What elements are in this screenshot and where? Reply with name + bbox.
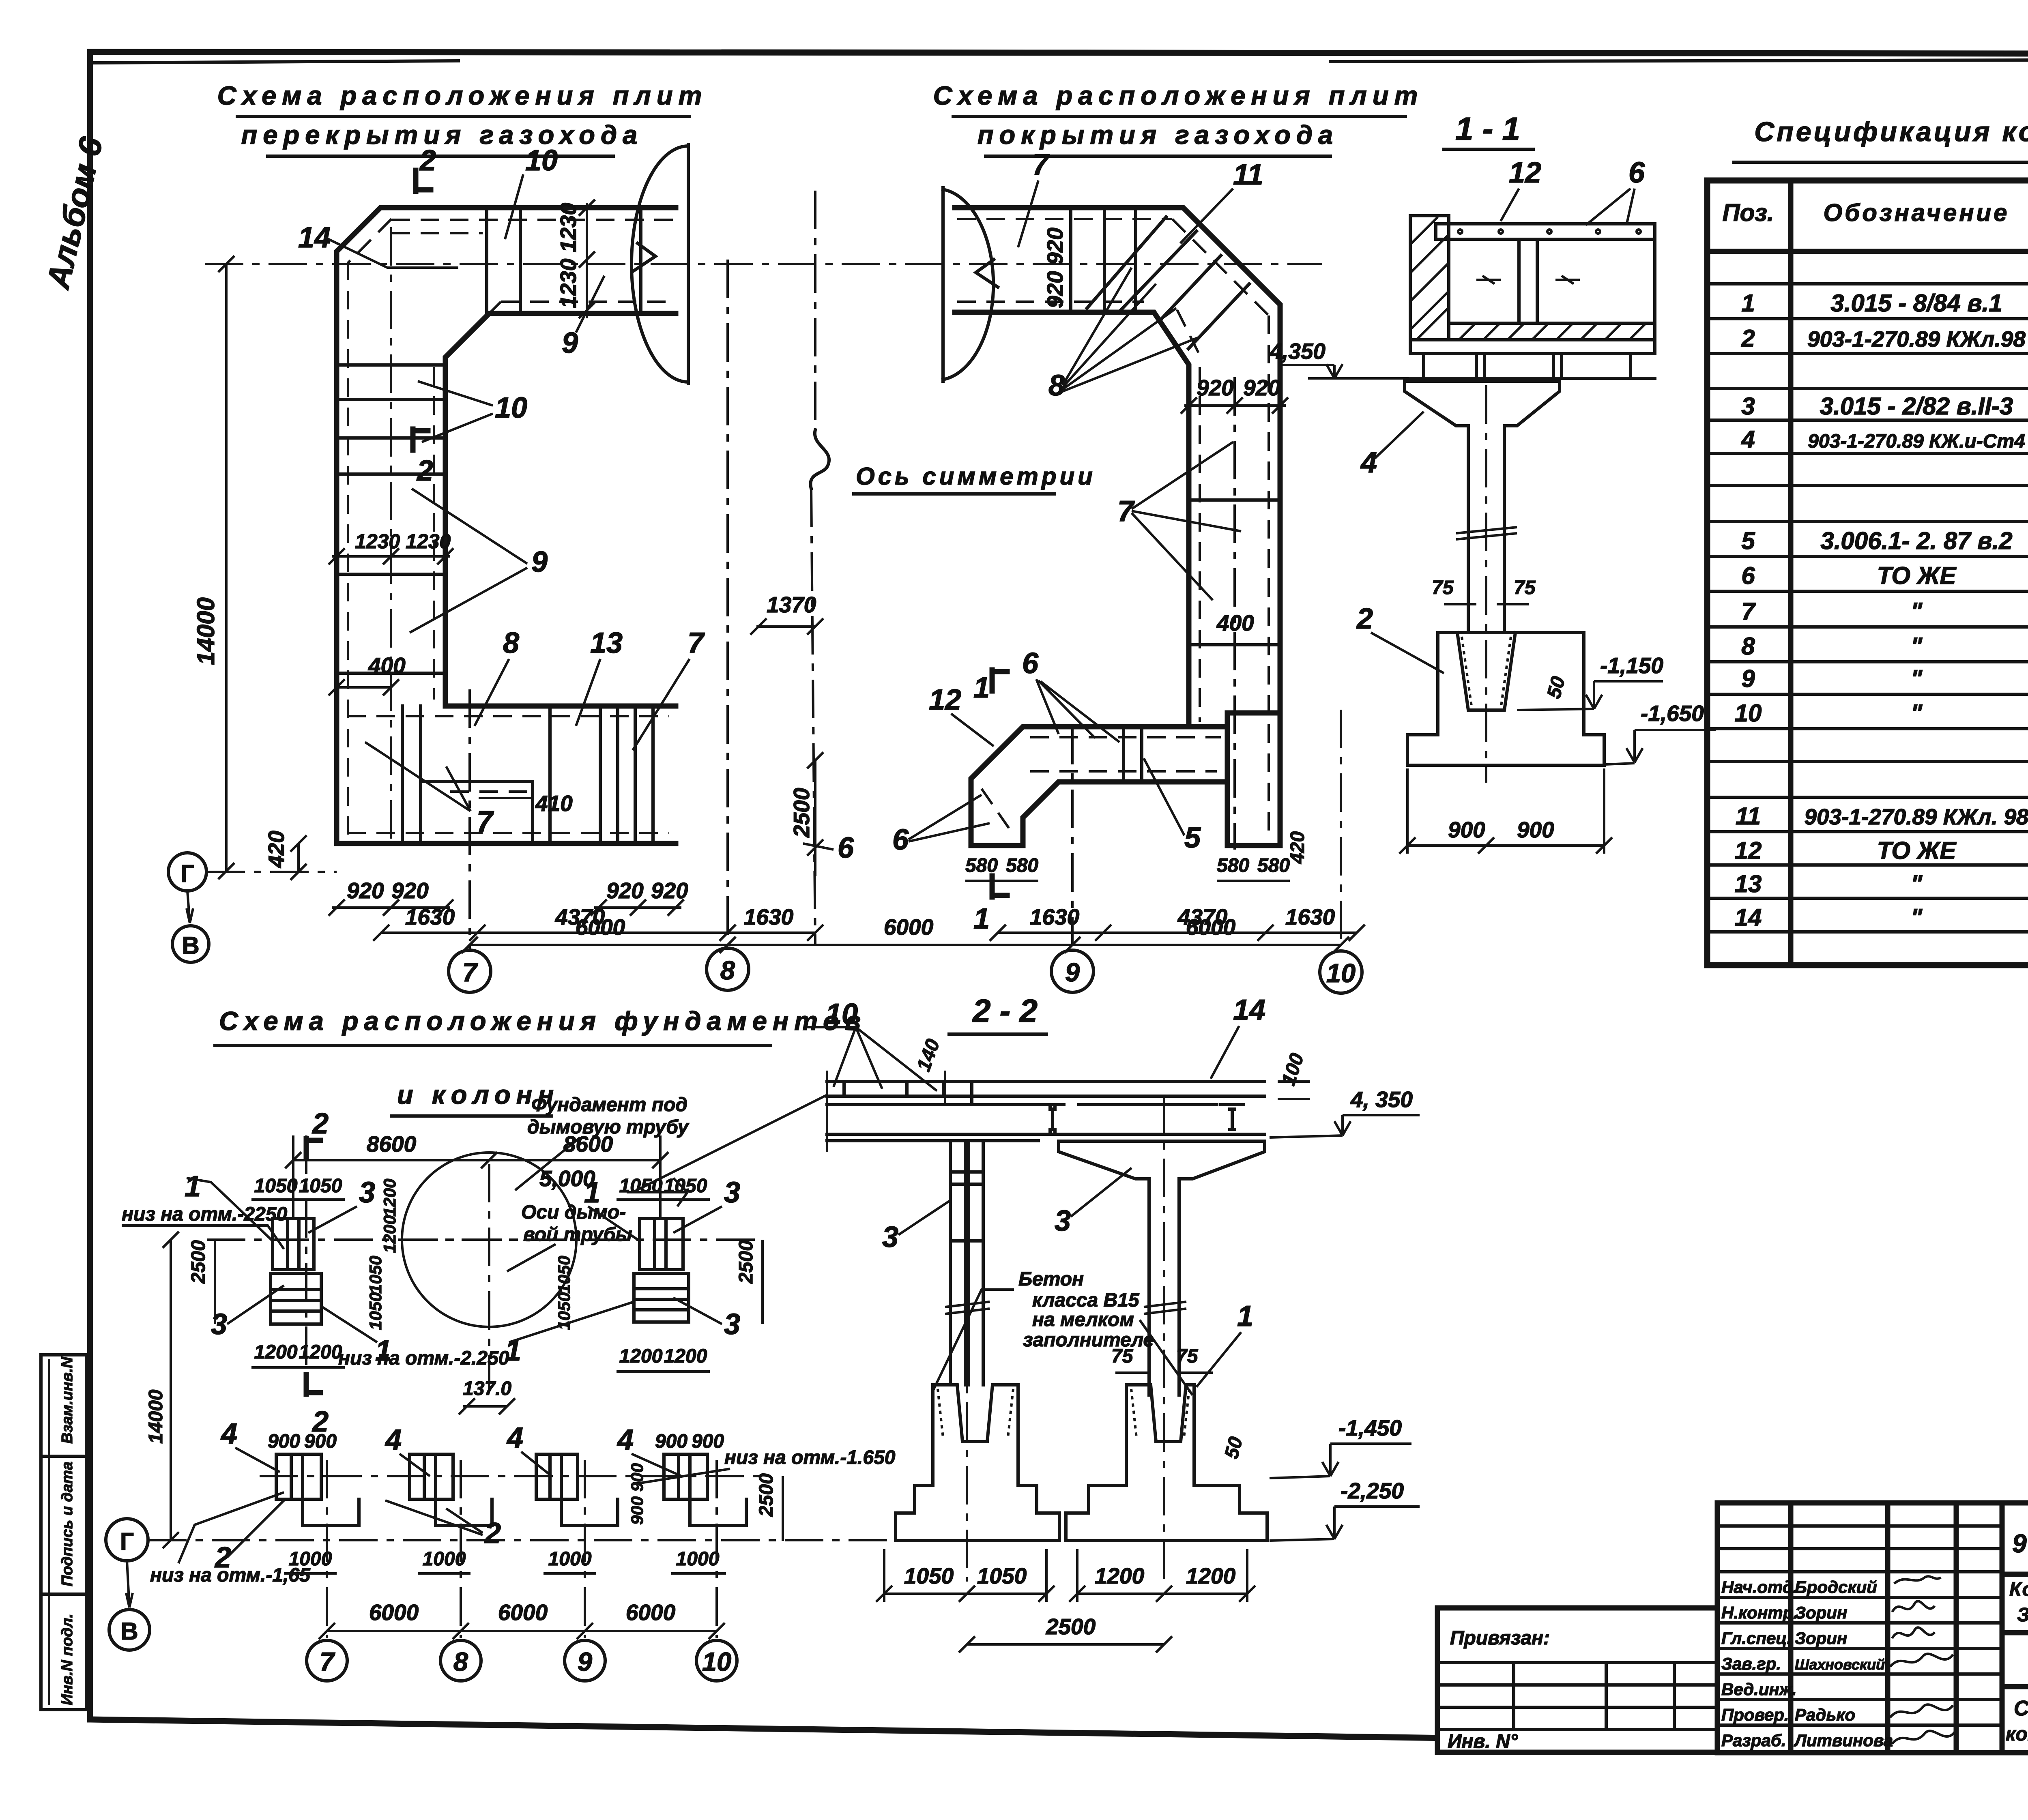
svg-text:Подпись и дата: Подпись и дата bbox=[59, 1462, 76, 1586]
svg-text:1050: 1050 bbox=[366, 1256, 385, 1294]
axis Г of duct arm (dash-dot) bbox=[205, 263, 1322, 265]
svg-text:8: 8 bbox=[720, 955, 735, 985]
svg-text:4, 350: 4, 350 bbox=[1350, 1087, 1413, 1112]
svg-text:1: 1 bbox=[1741, 290, 1755, 317]
svg-text:9: 9 bbox=[1065, 957, 1080, 987]
svg-text:13: 13 bbox=[590, 627, 623, 659]
svg-text:4: 4 bbox=[1360, 446, 1377, 479]
svg-text:Г: Г bbox=[180, 860, 194, 887]
grid line 7 bbox=[468, 689, 471, 945]
svg-text:1 - 1: 1 - 1 bbox=[1455, 111, 1520, 147]
svg-text:6: 6 bbox=[838, 832, 854, 864]
svg-text:6000: 6000 bbox=[626, 1600, 676, 1625]
svg-text:1230: 1230 bbox=[355, 530, 400, 553]
svg-text:14: 14 bbox=[1233, 994, 1265, 1026]
svg-text:8: 8 bbox=[1048, 369, 1065, 402]
svg-text:75: 75 bbox=[1176, 1346, 1199, 1367]
svg-text:8600: 8600 bbox=[367, 1131, 417, 1157]
plate joints on top arm bbox=[1071, 208, 1136, 312]
svg-text:Литвинова: Литвинова bbox=[1794, 1731, 1893, 1750]
grid line 9 bbox=[1071, 726, 1074, 945]
bottom arm joints bbox=[1124, 727, 1142, 782]
svg-text:3.015 - 8/84 в.1: 3.015 - 8/84 в.1 bbox=[1830, 290, 2002, 317]
svg-text:1000: 1000 bbox=[423, 1548, 466, 1570]
svg-text:Бетон: Бетон bbox=[1018, 1268, 1084, 1290]
svg-text:В: В bbox=[120, 1618, 138, 1645]
dashed bend edges bbox=[348, 219, 391, 263]
svg-text:11: 11 bbox=[1736, 803, 1761, 830]
svg-text:920: 920 bbox=[347, 878, 384, 903]
svg-text:11: 11 bbox=[1233, 159, 1263, 191]
svg-text:покрытия газохода: покрытия газохода bbox=[977, 120, 1338, 150]
svg-text:конструктивных элементов: конструктивных элементов bbox=[2006, 1723, 2028, 1745]
svg-text:7: 7 bbox=[1741, 598, 1756, 625]
svg-text:1050: 1050 bbox=[254, 1175, 298, 1197]
svg-text:3: 3 bbox=[211, 1308, 227, 1341]
svg-text:2500: 2500 bbox=[1046, 1614, 1096, 1639]
svg-text:4: 4 bbox=[617, 1424, 634, 1456]
svg-text:на мелком: на мелком bbox=[1032, 1309, 1134, 1331]
svg-text:8: 8 bbox=[453, 1647, 468, 1676]
svg-text:920: 920 bbox=[391, 878, 429, 903]
svg-text:3: 3 bbox=[1741, 393, 1755, 420]
svg-text:1000: 1000 bbox=[676, 1548, 720, 1570]
svg-text:1050: 1050 bbox=[904, 1563, 954, 1588]
svg-text:Нач.отд.: Нач.отд. bbox=[1721, 1577, 1798, 1597]
svg-text:12: 12 bbox=[929, 684, 961, 716]
svg-text:10: 10 bbox=[525, 144, 558, 177]
lower hatched strip bbox=[1449, 323, 1655, 340]
break symbol right of top arm bbox=[687, 144, 690, 384]
svg-text:Вед.инж.: Вед.инж. bbox=[1721, 1680, 1796, 1699]
centerlines of columns bbox=[966, 1148, 968, 1582]
svg-text:10: 10 bbox=[1326, 958, 1356, 988]
break symbol left of top arm bbox=[941, 188, 945, 381]
plate joints on vertical duct bbox=[337, 365, 445, 673]
duct outline inner bbox=[955, 312, 1189, 727]
svg-text:2: 2 bbox=[484, 1517, 501, 1550]
svg-text:Ось симметрии: Ось симметрии bbox=[856, 463, 1096, 490]
svg-text:1200: 1200 bbox=[254, 1341, 298, 1363]
upper axis row dash-dot bbox=[207, 1238, 763, 1241]
footing cup pedestal bbox=[1407, 633, 1604, 735]
svg-text:900: 900 bbox=[655, 1431, 687, 1452]
svg-text:920: 920 bbox=[1197, 375, 1234, 400]
svg-text:1230: 1230 bbox=[406, 530, 451, 553]
svg-text:12: 12 bbox=[1735, 837, 1762, 864]
centerline of vertical duct bbox=[390, 227, 392, 848]
chimney axes dash-dot bbox=[488, 1164, 490, 1391]
svg-text:1: 1 bbox=[185, 1170, 201, 1203]
duct outline inner bbox=[445, 313, 676, 706]
signature grid bbox=[1717, 1503, 2002, 1753]
dashed slab edges: vertical duct bbox=[347, 262, 349, 835]
upper-left foundation: column box bbox=[273, 1219, 314, 1270]
duct outline outer bbox=[337, 208, 676, 843]
svg-text:низ на отм.-1.650: низ на отм.-1.650 bbox=[724, 1447, 896, 1468]
svg-text:В: В bbox=[182, 932, 199, 959]
dashed slab edges: top arm bbox=[957, 218, 1172, 220]
svg-text:4,350: 4,350 bbox=[1269, 339, 1326, 364]
footing base bbox=[1407, 735, 1604, 765]
svg-text:903-1-270.89 КЖл. 98: 903-1-270.89 КЖл. 98 bbox=[1804, 804, 2028, 829]
svg-text:1: 1 bbox=[973, 903, 990, 935]
left lattice column K15 bbox=[950, 1141, 983, 1385]
svg-text:1200: 1200 bbox=[1186, 1563, 1236, 1588]
svg-text:Гл.спец.: Гл.спец. bbox=[1721, 1629, 1792, 1648]
plan view 1: slabs over gas duct (перекрытие) bbox=[168, 81, 1349, 992]
vertical dim 14000 bbox=[163, 1232, 179, 1548]
title block (штамп) bbox=[1437, 1503, 2028, 1779]
svg-text:903-1-270.89 КЖ.и-Ст4: 903-1-270.89 КЖ.и-Ст4 bbox=[1808, 431, 2025, 452]
svg-text:920: 920 bbox=[1243, 375, 1280, 400]
svg-text:Инв. N°: Инв. N° bbox=[1448, 1731, 1518, 1752]
grid line 10 bbox=[1340, 710, 1342, 945]
svg-text:10: 10 bbox=[1735, 700, 1762, 727]
svg-text:5: 5 bbox=[1741, 527, 1755, 554]
svg-text:1370: 1370 bbox=[767, 592, 816, 617]
dashed slab edges: top arm bbox=[391, 219, 673, 221]
svg-text:1050: 1050 bbox=[619, 1175, 663, 1197]
svg-text:2: 2 bbox=[312, 1107, 329, 1140]
svg-text:900: 900 bbox=[1517, 817, 1554, 842]
svg-text:1630: 1630 bbox=[744, 904, 794, 929]
upper-right foundation: column box bbox=[640, 1219, 683, 1270]
svg-text:400: 400 bbox=[368, 653, 406, 678]
svg-text:1050: 1050 bbox=[977, 1563, 1027, 1588]
svg-text:1630: 1630 bbox=[405, 904, 455, 929]
svg-text:Зорин: Зорин bbox=[1795, 1629, 1847, 1648]
top slab with concrete dots bbox=[1436, 224, 1655, 239]
svg-text:Н.контр.: Н.контр. bbox=[1721, 1603, 1798, 1622]
svg-text:4: 4 bbox=[220, 1418, 237, 1450]
svg-text:низ на отм.-1,65: низ на отм.-1,65 bbox=[150, 1565, 311, 1586]
svg-text:": " bbox=[1911, 700, 1923, 727]
svg-text:-2,250: -2,250 bbox=[1341, 1478, 1404, 1503]
svg-text:900 900: 900 900 bbox=[627, 1463, 647, 1525]
lower scheme: foundations and columns plan bbox=[106, 1006, 913, 1681]
row lines bbox=[1707, 284, 2028, 932]
svg-text:580: 580 bbox=[1257, 855, 1290, 876]
svg-text:5: 5 bbox=[1184, 822, 1201, 854]
right end block verticals bbox=[600, 706, 653, 843]
svg-text:4: 4 bbox=[506, 1422, 523, 1454]
svg-text:1050: 1050 bbox=[366, 1292, 385, 1330]
svg-text:1000: 1000 bbox=[289, 1548, 332, 1570]
svg-text:4: 4 bbox=[1741, 426, 1755, 453]
svg-text:1200: 1200 bbox=[619, 1346, 663, 1367]
chimney foundation circle bbox=[402, 1153, 576, 1327]
svg-text:3.006.1- 2. 87 в.2: 3.006.1- 2. 87 в.2 bbox=[1820, 527, 2012, 554]
svg-text:Спецификация конструктивных: Спецификация конструктивных элементов bbox=[1754, 116, 2028, 147]
svg-text:Радько: Радько bbox=[1795, 1705, 1855, 1724]
hatched wall left bbox=[1410, 216, 1449, 340]
svg-text:низ на отм.-2250: низ на отм.-2250 bbox=[122, 1204, 287, 1225]
svg-text:13: 13 bbox=[1735, 870, 1762, 897]
grid line 8 bbox=[726, 260, 729, 945]
svg-text:2: 2 bbox=[416, 455, 433, 487]
duct outline outer bbox=[955, 208, 1280, 846]
svg-text:2500: 2500 bbox=[789, 788, 814, 838]
svg-text:-1,650: -1,650 bbox=[1641, 701, 1704, 726]
svg-text:6000: 6000 bbox=[884, 914, 934, 940]
left filing strip with rotated stamp cells bbox=[41, 1355, 90, 1710]
svg-text:903-1-270.89: 903-1-270.89 bbox=[2012, 1529, 2028, 1558]
svg-text:Поз.: Поз. bbox=[1722, 199, 1774, 226]
axis through lower squares bbox=[260, 1475, 771, 1477]
svg-text:Фундамент под: Фундамент под bbox=[531, 1094, 687, 1116]
svg-text:2500: 2500 bbox=[735, 1240, 757, 1284]
svg-text:1230 1230: 1230 1230 bbox=[556, 203, 581, 308]
sheet name cell bbox=[2002, 1684, 2028, 1689]
header row line bbox=[1707, 249, 2028, 254]
section view 2-2 bbox=[539, 993, 1420, 1653]
svg-text:2 - 2: 2 - 2 bbox=[972, 993, 1038, 1029]
svg-text:9: 9 bbox=[531, 546, 548, 578]
svg-text:14000: 14000 bbox=[145, 1389, 167, 1444]
svg-text:Схема расположения плит: Схема расположения плит bbox=[217, 81, 708, 110]
dashed bend and duct edges bbox=[1172, 219, 1269, 315]
signature squiggles bbox=[1894, 1576, 1941, 1584]
shaft break mark bbox=[1456, 527, 1517, 539]
svg-text:6: 6 bbox=[1022, 647, 1039, 680]
svg-text:": " bbox=[1911, 870, 1923, 897]
svg-text:2500: 2500 bbox=[756, 1473, 777, 1517]
svg-text:1200: 1200 bbox=[380, 1179, 399, 1217]
section mark 1 (bottom) bbox=[992, 876, 1007, 897]
section mark 2 line through left group bbox=[305, 1135, 307, 1395]
grid lines and circles 7 8 9 10 lower bbox=[326, 1460, 328, 1638]
svg-text:14000: 14000 bbox=[192, 597, 219, 665]
column lines bbox=[1791, 180, 2028, 965]
svg-text:3: 3 bbox=[359, 1176, 375, 1209]
dashed edges bottom arm bbox=[347, 715, 669, 717]
svg-text:7: 7 bbox=[462, 957, 478, 987]
svg-text:3: 3 bbox=[1055, 1205, 1071, 1237]
bottom arm outline bbox=[971, 727, 1227, 846]
rotated album label "Альбом 6" bbox=[39, 134, 110, 293]
svg-text:2500: 2500 bbox=[188, 1240, 209, 1284]
svg-text:900: 900 bbox=[268, 1431, 300, 1452]
svg-text:14: 14 bbox=[1735, 904, 1762, 931]
svg-text:3: 3 bbox=[724, 1308, 740, 1341]
specification table bbox=[1707, 116, 2028, 965]
svg-text:Шахновский: Шахновский bbox=[1795, 1656, 1885, 1673]
svg-text:7: 7 bbox=[1032, 148, 1050, 181]
svg-text:900: 900 bbox=[304, 1431, 337, 1452]
svg-text:1050: 1050 bbox=[299, 1175, 342, 1197]
svg-text:9: 9 bbox=[578, 1647, 592, 1676]
svg-text:Золошлакоудаление механическо: Золошлакоудаление механическое bbox=[2017, 1604, 2028, 1626]
svg-text:Котельная с 4 котлами Е-10-1,: Котельная с 4 котлами Е-10-1,4Р bbox=[2009, 1579, 2028, 1600]
dashed bottom arm edges bbox=[1030, 736, 1221, 738]
svg-text:7: 7 bbox=[687, 627, 705, 659]
svg-text:1200: 1200 bbox=[299, 1341, 342, 1363]
svg-text:900: 900 bbox=[1448, 817, 1485, 842]
beam row bbox=[1410, 377, 1655, 380]
svg-text:1200: 1200 bbox=[1095, 1563, 1145, 1588]
svg-text:3: 3 bbox=[724, 1176, 740, 1209]
svg-text:заполнителе: заполнителе bbox=[1023, 1329, 1154, 1351]
plate joints on vertical duct bbox=[1189, 500, 1280, 645]
box body bbox=[1449, 239, 1655, 323]
axis circle В bbox=[172, 926, 209, 962]
svg-text:8: 8 bbox=[1741, 633, 1755, 660]
svg-text:8: 8 bbox=[503, 627, 519, 659]
svg-text:-1,150: -1,150 bbox=[1600, 653, 1663, 678]
svg-text:-1,450: -1,450 bbox=[1338, 1415, 1402, 1440]
svg-text:Провер.: Провер. bbox=[1721, 1705, 1789, 1724]
svg-text:вой трубы: вой трубы bbox=[523, 1224, 632, 1245]
column centerline bbox=[1485, 385, 1487, 783]
svg-text:420: 420 bbox=[264, 831, 289, 868]
upper-right foundation: pit box bbox=[634, 1273, 689, 1322]
roof slab band bbox=[827, 1080, 1265, 1083]
svg-text:Зав.гр.: Зав.гр. bbox=[1721, 1654, 1781, 1673]
svg-text:420: 420 bbox=[1287, 831, 1308, 864]
svg-text:Схема расположения фундамент: Схема расположения фундаментов bbox=[219, 1006, 866, 1036]
svg-text:8600: 8600 bbox=[563, 1131, 613, 1157]
svg-text:Зорин: Зорин bbox=[1795, 1603, 1847, 1622]
svg-text:6: 6 bbox=[1628, 157, 1645, 189]
axis Г lower bbox=[106, 1519, 148, 1561]
svg-text:Разраб.: Разраб. bbox=[1721, 1731, 1786, 1750]
svg-text:6000: 6000 bbox=[576, 914, 625, 940]
section mark 2 (top) bbox=[416, 170, 431, 191]
diagonal plate joints in bend bbox=[1087, 217, 1249, 349]
svg-text:75: 75 bbox=[1432, 577, 1454, 599]
svg-text:580: 580 bbox=[965, 855, 998, 876]
svg-text:10: 10 bbox=[825, 998, 858, 1030]
svg-text:12: 12 bbox=[1509, 157, 1541, 189]
svg-text:4370: 4370 bbox=[1177, 904, 1228, 929]
table outer border bbox=[1707, 180, 2028, 965]
upper-left foundation: pit box bbox=[271, 1273, 321, 1324]
lower row foundation squares bbox=[276, 1454, 321, 1499]
svg-text:ТО ЖЕ: ТО ЖЕ bbox=[1877, 562, 1957, 589]
column cap and shaft bbox=[1405, 381, 1560, 633]
svg-text:перекрытия газохода: перекрытия газохода bbox=[241, 120, 643, 150]
slab joints bbox=[844, 1082, 972, 1105]
svg-text:": " bbox=[1911, 633, 1923, 660]
svg-text:6000: 6000 bbox=[369, 1600, 419, 1625]
svg-text:2: 2 bbox=[1741, 325, 1755, 352]
svg-text:Инв.N подл.: Инв.N подл. bbox=[59, 1614, 76, 1705]
svg-text:410: 410 bbox=[535, 791, 573, 816]
svg-text:ТО ЖЕ: ТО ЖЕ bbox=[1877, 837, 1957, 864]
plate joints on top arm bbox=[487, 208, 641, 313]
svg-text:400: 400 bbox=[1216, 610, 1254, 635]
vertical dim 14000 bbox=[225, 264, 228, 871]
right footing bbox=[1066, 1385, 1267, 1541]
svg-text:низ на отм.-2.250: низ на отм.-2.250 bbox=[338, 1348, 509, 1369]
svg-text:580: 580 bbox=[1217, 855, 1249, 876]
svg-text:920 920: 920 920 bbox=[1042, 227, 1068, 308]
svg-text:Привязан:: Привязан: bbox=[1450, 1627, 1550, 1649]
svg-text:1: 1 bbox=[1237, 1300, 1253, 1333]
svg-text:10: 10 bbox=[702, 1647, 731, 1676]
svg-text:4: 4 bbox=[385, 1424, 402, 1456]
svg-text:7: 7 bbox=[320, 1647, 335, 1676]
thin slab below bbox=[1410, 340, 1655, 354]
section mark 2 (bottom) bbox=[413, 429, 428, 450]
svg-text:75: 75 bbox=[1514, 577, 1536, 599]
left footing bbox=[896, 1385, 1059, 1541]
svg-text:1630: 1630 bbox=[1285, 904, 1335, 929]
svg-text:Схема расположения плит: Схема расположения плит bbox=[933, 81, 1424, 110]
svg-text:Схема расположения: Схема расположения bbox=[2014, 1697, 2028, 1720]
svg-text:Обозначение: Обозначение bbox=[1823, 199, 2009, 226]
centerlines bbox=[1233, 377, 1236, 850]
bottom arm plate joint doubles bbox=[402, 706, 550, 843]
attachment sub-table Привязан bbox=[1437, 1608, 1717, 1752]
svg-text:3: 3 bbox=[882, 1221, 898, 1253]
I beams under slab bbox=[1041, 1105, 1064, 1134]
svg-text:1: 1 bbox=[973, 672, 990, 704]
svg-text:2: 2 bbox=[419, 144, 436, 177]
svg-text:": " bbox=[1911, 598, 1923, 625]
svg-text:Взам.инв.N: Взам.инв.N bbox=[59, 1356, 76, 1444]
svg-text:920: 920 bbox=[606, 878, 644, 903]
svg-text:9: 9 bbox=[1741, 665, 1755, 692]
main stamp outer bbox=[1717, 1503, 2028, 1753]
bottom arm inner wall bbox=[421, 780, 533, 783]
svg-text:3.015 - 2/82 в.II-3: 3.015 - 2/82 в.II-3 bbox=[1820, 393, 2013, 420]
svg-text:1050: 1050 bbox=[554, 1256, 574, 1294]
svg-text:6: 6 bbox=[892, 824, 909, 856]
svg-text:": " bbox=[1911, 904, 1923, 931]
svg-text:Г: Г bbox=[120, 1528, 134, 1555]
svg-text:6000: 6000 bbox=[498, 1600, 548, 1625]
apron slabs under squares bbox=[303, 1499, 359, 1526]
right column T cap bbox=[1059, 1141, 1265, 1395]
svg-text:1200: 1200 bbox=[664, 1346, 707, 1367]
svg-text:1200: 1200 bbox=[380, 1215, 399, 1253]
svg-text:903-1-270.89 КЖл.98: 903-1-270.89 КЖл.98 bbox=[1807, 326, 2026, 352]
svg-text:": " bbox=[1911, 665, 1923, 692]
axis В lower bbox=[109, 1610, 150, 1650]
doc number cell bbox=[2002, 1572, 2028, 1577]
plan view 2: slabs of duct roof (покрытие) bbox=[892, 81, 1423, 993]
svg-text:10: 10 bbox=[495, 392, 527, 424]
svg-text:Бродский: Бродский bbox=[1795, 1577, 1877, 1597]
svg-text:900: 900 bbox=[692, 1431, 724, 1452]
svg-text:137.0: 137.0 bbox=[463, 1378, 511, 1399]
svg-text:75: 75 bbox=[1111, 1346, 1134, 1367]
svg-text:6: 6 bbox=[1741, 562, 1755, 589]
axis circle Г bbox=[168, 853, 206, 891]
symmetry axis with break bbox=[814, 191, 816, 430]
svg-text:класса В15: класса В15 bbox=[1032, 1290, 1140, 1311]
svg-text:5,000: 5,000 bbox=[539, 1166, 595, 1191]
project name cell bbox=[2002, 1630, 2028, 1635]
svg-text:580: 580 bbox=[1006, 855, 1038, 876]
section mark 1 (top) bbox=[992, 670, 1007, 691]
svg-text:2: 2 bbox=[1356, 603, 1373, 635]
section view 1-1 bbox=[1269, 111, 1716, 854]
